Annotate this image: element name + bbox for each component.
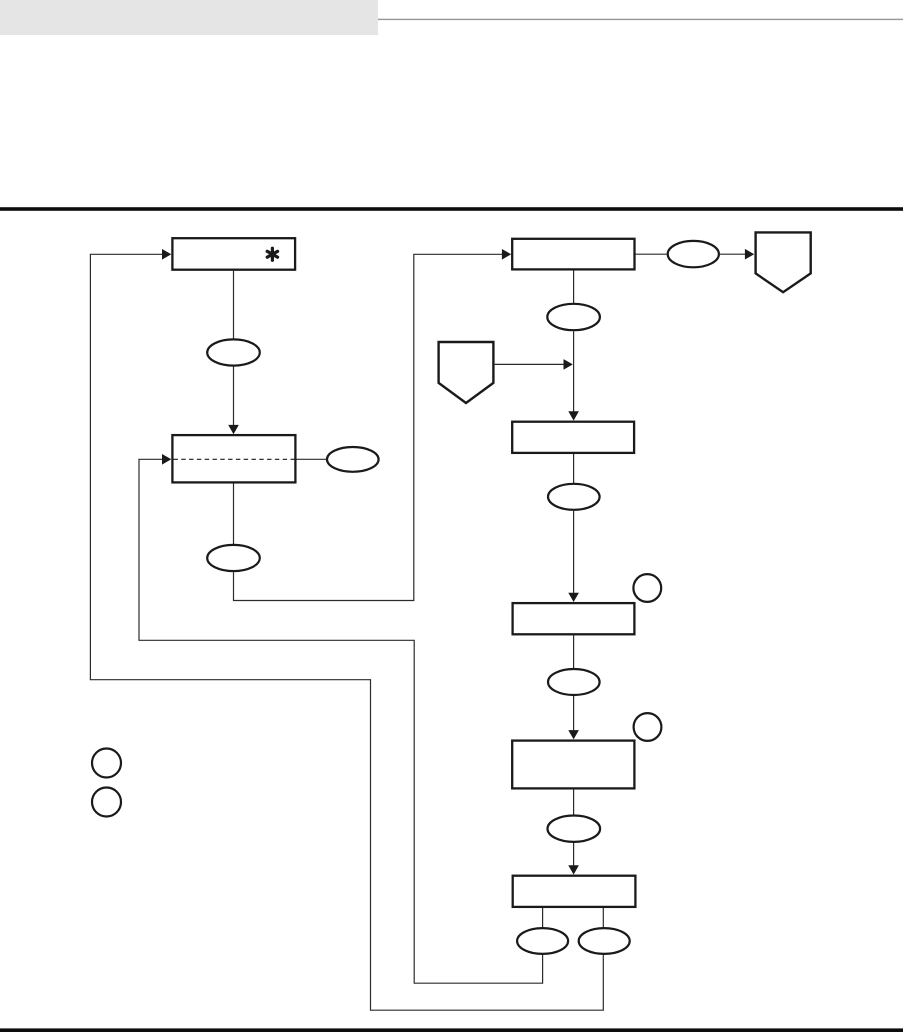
process box R5 [513, 603, 635, 634]
annotation circle CA (legend, left) [92, 749, 121, 778]
arrowhead into R4 top [568, 411, 579, 420]
arrowhead into R1 [162, 249, 171, 260]
pentagon P2 (off-page connector, mid left of column 2) [439, 342, 494, 403]
ellipse E4 [548, 484, 600, 510]
ellipse ER3 (right of R3) [668, 241, 719, 267]
ellipse E8 (bottom right of pair) [579, 928, 630, 954]
header gray bar [0, 0, 378, 35]
wire: loop into dashed box R2 (from bottom-left ellipse E7) [139, 459, 543, 983]
arrowhead into R3 [502, 249, 511, 260]
wire: E1 bottom to R2 top [233, 367, 235, 432]
arrowhead into R5 top [568, 593, 579, 602]
process box R4 [512, 422, 634, 453]
wire: R3 bottom to ellipse E3 [573, 270, 575, 303]
ellipse E6 [548, 816, 601, 842]
wire: pentagon P2 to trunk [495, 363, 566, 365]
wire: R5 bottom to ellipse E5 [573, 635, 575, 668]
header rule line [378, 19, 903, 20]
wire: loop into process box R1 (from bottom-right ellipse E8) [90, 254, 603, 1010]
wire: R2 bottom to ellipse E2 [233, 483, 235, 544]
ellipse E1 [207, 339, 260, 365]
ellipse ER2 (right of R2) [327, 447, 379, 472]
wire: E2 bottom to R3 left (up the middle trunk) [234, 254, 505, 600]
arrowhead into R2 top [228, 425, 239, 434]
wire: E4 bottom to R5 top [573, 511, 575, 600]
arrowhead into P1 [745, 249, 754, 260]
wire: R3 right to ellipse ER3 [636, 253, 667, 255]
ellipse E2 [207, 545, 260, 571]
wire: R2 right to ellipse ER2 [296, 458, 326, 460]
wire: E5 bottom to R6 top [573, 696, 575, 737]
arrowhead from P2 into trunk [564, 359, 573, 370]
top thick divider [0, 207, 903, 211]
annotation circle CB (legend, left) [92, 788, 121, 817]
wire: R4 bottom to ellipse E4 [573, 454, 575, 483]
process box R3 [512, 239, 634, 270]
asterisk label in R1 [267, 248, 277, 260]
wire: R7 bottom to ellipse E8 [602, 908, 604, 928]
ellipse E7 (bottom left of pair) [517, 928, 568, 954]
wire: R7 bottom to ellipse E7 [542, 908, 544, 928]
arrowhead into R6 top [568, 730, 579, 739]
annotation circle C1 (near R5 top-right) [633, 574, 661, 602]
wire: E3 bottom to R4 top [573, 331, 575, 418]
ellipse E3 [547, 304, 600, 330]
process box R6 (tall) [512, 741, 634, 789]
wire: ER3 to pentagon P1 [720, 253, 747, 255]
process box R2 (with dashed divider) [172, 435, 295, 482]
dashed divider in R2 [174, 458, 295, 460]
ellipse E5 [548, 669, 600, 695]
process box R1 [172, 238, 295, 270]
wire: R1 bottom to ellipse E1 [233, 271, 235, 339]
wire: R6 bottom to ellipse E6 [573, 789, 575, 815]
pentagon P1 (off-page connector, top right) [756, 232, 811, 292]
process box R7 [513, 876, 636, 907]
arrowhead into R7 top [568, 865, 579, 874]
arrowhead into R2 [162, 454, 171, 465]
bottom thick divider [0, 1028, 903, 1032]
annotation circle C2 (near R6 top-right) [634, 713, 662, 741]
wire: E6 bottom to R7 top [573, 843, 575, 872]
